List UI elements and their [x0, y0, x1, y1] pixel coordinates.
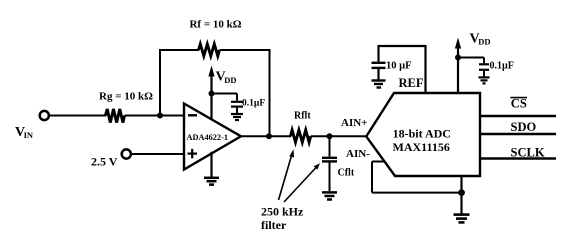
label Rg = 10 kOhm [99, 90, 153, 102]
svg-text:filter: filter [261, 218, 287, 232]
label Rflt [294, 110, 311, 121]
node VDD branch ADC [455, 55, 461, 61]
svg-text:2.5 V: 2.5 V [91, 155, 118, 169]
label 250 kHz [261, 205, 304, 219]
capacitor C1 lower stub [236, 108, 238, 114]
svg-text:0.1µF: 0.1µF [242, 98, 265, 108]
label AIN- [346, 148, 370, 160]
svg-text:AIN-: AIN- [346, 148, 370, 160]
svg-text:18-bit ADC: 18-bit ADC [393, 127, 451, 141]
node VDD branch op-amp [209, 91, 215, 97]
capacitor C1 0.1uF stub [236, 94, 238, 101]
svg-text:REF: REF [399, 76, 424, 90]
svg-text:Rflt: Rflt [294, 110, 311, 121]
svg-text:DD: DD [478, 37, 490, 47]
svg-text:0.1µF: 0.1µF [490, 60, 514, 71]
svg-text:SCLK: SCLK [511, 146, 545, 160]
svg-text:SDO: SDO [511, 120, 537, 134]
wire op-amp output [240, 135, 291, 137]
svg-text:250 kHz: 250 kHz [261, 205, 304, 219]
wire 2.5V to opamp noninverting input [131, 153, 184, 155]
label REF [399, 76, 424, 90]
capacitor C2 lower stub [483, 71, 485, 77]
label filter [261, 218, 287, 232]
terminal VIN [40, 111, 49, 120]
label SDO [511, 120, 537, 134]
wire feedback top right segment [220, 49, 271, 51]
wire VIN to Rg [49, 115, 106, 117]
svg-text:AIN+: AIN+ [341, 117, 367, 129]
label 10 uF [386, 60, 412, 71]
wire VDD branch to 0.1uF [458, 57, 484, 59]
AIN- pin stub [372, 161, 385, 163]
svg-text:MAX11156: MAX11156 [393, 140, 450, 154]
wire CS output [480, 115, 556, 117]
label 0.1uF op-amp [242, 98, 265, 108]
node junction input/feedback [157, 113, 163, 119]
label SCLK [511, 146, 545, 160]
op-amp ground stub [210, 152, 212, 177]
ground under op-amp [204, 178, 219, 185]
capacitor Cflt upper stub [329, 136, 331, 156]
wire feedback top left segment [159, 49, 199, 51]
label Rf = 10 kOhm [189, 19, 241, 31]
capacitor Cflt plates [322, 158, 337, 162]
svg-text:Cflt: Cflt [338, 167, 355, 178]
op-amp plus sign [188, 149, 198, 158]
ADC VDD supply wire [457, 46, 459, 93]
ADC U2 body [366, 93, 480, 176]
wire VDD branch to bypass cap [212, 93, 238, 95]
label 0.1uF ADC [490, 60, 514, 71]
svg-text:10 µF: 10 µF [386, 60, 412, 71]
label 18-bit ADC [393, 127, 451, 141]
op-amp VDD arrowhead [208, 66, 214, 77]
capacitor 10uF lower stub [377, 69, 379, 80]
wire AIN- vertical down [371, 162, 373, 193]
capacitor C1 0.1uF plates [231, 102, 243, 107]
ground under Cflt [322, 192, 337, 199]
svg-text:Rg = 10 kΩ: Rg = 10 kΩ [99, 90, 153, 102]
capacitor Cflt lower stub [329, 162, 331, 191]
ground under C2 [479, 77, 490, 83]
node output/feedback junction [266, 133, 272, 139]
REF loop top wire [379, 45, 426, 47]
terminal 2.5V [122, 149, 131, 158]
svg-text:IN: IN [24, 130, 34, 140]
svg-text:CS: CS [511, 97, 527, 111]
svg-text:Rf = 10 kΩ: Rf = 10 kΩ [189, 19, 241, 31]
wire AIN- bottom horizontal [372, 192, 462, 194]
node ADC ground junction [458, 189, 465, 196]
capacitor C2 0.1uF plates [479, 64, 489, 70]
wire SCLK output [480, 157, 556, 159]
op-amp VDD supply wire [210, 74, 212, 120]
arrow to Cflt [284, 163, 320, 202]
REF pin vertical [424, 45, 426, 93]
label VIN [15, 125, 34, 140]
resistor Rf [199, 44, 220, 56]
label VDD op-amp [216, 70, 237, 86]
svg-text:ADA4622-1: ADA4622-1 [187, 133, 228, 142]
label ADA4622-1 [187, 133, 228, 142]
ground under ADC [454, 215, 470, 223]
ADC ground pin [460, 176, 462, 214]
wire SDO output [480, 133, 556, 135]
wire feedback right vertical [269, 49, 271, 136]
label CS with overline [511, 97, 528, 111]
op-amp U1 triangle [184, 104, 241, 170]
wire Rg to opamp inverting input [125, 115, 184, 117]
op-amp minus sign [188, 114, 197, 116]
label 2.5 V [91, 155, 118, 169]
label AIN+ [341, 117, 367, 129]
arrow to Rflt [279, 149, 295, 200]
ADC VDD arrowhead [455, 38, 461, 49]
ground under 10uF [372, 81, 386, 88]
node Rflt/Cflt junction [327, 133, 333, 139]
label VDD ADC [470, 31, 491, 46]
capacitor 10uF plates [372, 63, 386, 68]
capacitor C2 0.1uF stub [483, 58, 485, 64]
ground under C1 [231, 114, 243, 120]
wire Rflt to ADC AIN+ [311, 135, 367, 137]
capacitor 10uF upper stub [377, 45, 379, 62]
label MAX11156 [393, 140, 450, 154]
resistor Rg [106, 109, 125, 123]
label Cflt [338, 167, 355, 178]
resistor Rflt [291, 130, 311, 142]
svg-text:DD: DD [224, 75, 236, 85]
wire feedback left vertical [159, 50, 161, 116]
